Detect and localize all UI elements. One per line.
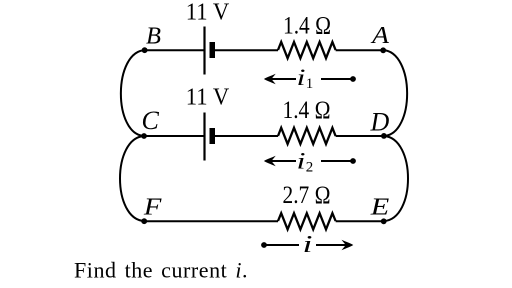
svg-text:i: i — [297, 65, 306, 90]
svg-text:1.4 Ω: 1.4 Ω — [283, 97, 331, 124]
battery V1 long plate — [203, 27, 205, 75]
svg-text:i: i — [297, 149, 306, 174]
current arrow i2 line segments — [266, 160, 353, 162]
current arrow i2 arrowhead pointing left — [264, 156, 276, 167]
current arrow i2 tail dot — [350, 158, 356, 164]
node D dot — [381, 133, 387, 139]
wire F to resistor R3 — [144, 220, 278, 222]
wire resistor R2 to node D — [336, 135, 384, 137]
svg-text:i: i — [303, 232, 313, 258]
node C dot — [141, 133, 147, 139]
svg-text:2.7 Ω: 2.7 Ω — [283, 182, 331, 209]
svg-text:11 V: 11 V — [186, 0, 230, 26]
current arrow i line segments — [264, 244, 352, 246]
node A dot — [380, 47, 386, 53]
wire battery V2 to resistor R2 — [215, 135, 278, 137]
svg-text:D: D — [370, 107, 390, 136]
node F dot — [141, 218, 147, 224]
resistor R2 zigzag 1.4 ohm — [278, 128, 336, 144]
wire left curve C to F — [120, 136, 144, 221]
node E dot — [381, 218, 387, 224]
node B dot — [142, 47, 148, 53]
svg-text:11 V: 11 V — [186, 84, 230, 111]
wire right curve D to E — [384, 136, 408, 221]
battery V2 long plate — [203, 113, 205, 161]
wire left curve B to C — [121, 50, 145, 136]
current arrow i tail dot — [261, 242, 267, 248]
battery V1 short thick plate — [210, 42, 216, 58]
battery V2 short thick plate — [210, 128, 216, 144]
svg-text:Find the current i.: Find the current i. — [74, 258, 248, 283]
wire resistor R3 to node E — [336, 220, 384, 222]
svg-text:F: F — [143, 193, 163, 220]
svg-text:1: 1 — [306, 76, 314, 92]
wire right curve A to D — [383, 50, 407, 136]
wire resistor R1 to node A — [336, 49, 383, 51]
svg-text:E: E — [370, 193, 390, 220]
current arrow i1 arrowhead pointing left — [264, 74, 276, 85]
current arrow i arrowhead pointing right — [342, 240, 354, 251]
svg-text:2: 2 — [306, 160, 314, 176]
wire B to battery V1 — [145, 49, 204, 51]
current arrow i1 line segments — [266, 78, 353, 80]
wire battery V1 to resistor R1 — [215, 49, 278, 51]
current arrow i1 tail dot — [350, 76, 356, 82]
resistor R1 zigzag 1.4 ohm — [278, 42, 336, 58]
svg-text:B: B — [146, 22, 161, 49]
resistor R3 zigzag 2.7 ohm — [278, 213, 336, 229]
svg-text:A: A — [370, 22, 390, 49]
wire C to battery V2 — [144, 135, 204, 137]
svg-text:C: C — [142, 106, 160, 135]
svg-text:1.4 Ω: 1.4 Ω — [283, 13, 331, 40]
